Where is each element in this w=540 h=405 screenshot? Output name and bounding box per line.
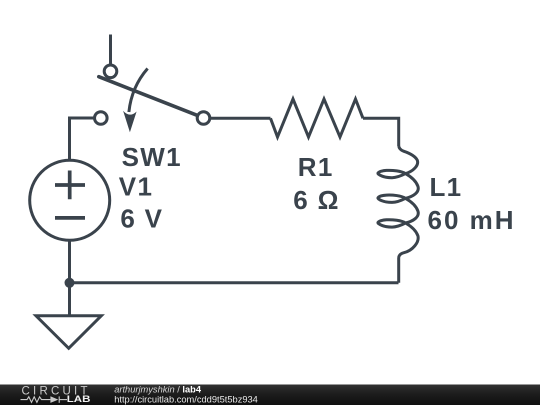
V1 plus sign — [55, 171, 85, 200]
resistor R1 — [271, 99, 364, 137]
switch SW1 pivot terminal — [104, 65, 117, 78]
svg-text:6 Ω: 6 Ω — [293, 185, 339, 215]
svg-text:SW1: SW1 — [122, 142, 182, 172]
switch SW1 blade — [99, 77, 204, 118]
svg-text:6 V: 6 V — [120, 204, 163, 234]
wire: stub above switch pivot — [109, 35, 112, 65]
CircuitLab logo resistor zigzag and diode — [21, 396, 68, 402]
wire: ground stub — [68, 283, 71, 316]
inductor L1 — [378, 146, 418, 283]
switch SW1 arrowhead — [123, 111, 137, 133]
ground symbol — [36, 316, 101, 349]
svg-text:LAB: LAB — [67, 394, 91, 404]
wire: bottom return from ground node to L1 — [70, 281, 399, 284]
svg-text:arthurjmyshkin / lab4: arthurjmyshkin / lab4 — [114, 384, 202, 394]
wire: R1 to L1 top lead — [363, 118, 399, 146]
junction: ground node dot — [65, 278, 75, 288]
switch SW1 actuation arc — [129, 69, 148, 113]
svg-text:V1: V1 — [119, 171, 153, 201]
svg-text:60 mH: 60 mH — [428, 205, 516, 235]
wire: V1 bottom lead to ground node — [68, 241, 71, 283]
wire: SW1 right terminal to R1 — [211, 117, 271, 120]
wire: SW1 left terminal to V1 top lead — [70, 118, 95, 160]
svg-text:R1: R1 — [298, 152, 334, 182]
V1 minus sign — [55, 216, 85, 220]
switch SW1 left terminal (node to V1) — [95, 112, 108, 125]
voltage source V1 body — [30, 160, 110, 240]
svg-text:http://circuitlab.com/cdd9t5t5: http://circuitlab.com/cdd9t5t5bz934 — [114, 395, 258, 405]
switch SW1 right terminal (node to R1) — [197, 112, 210, 125]
svg-text:L1: L1 — [430, 172, 463, 202]
